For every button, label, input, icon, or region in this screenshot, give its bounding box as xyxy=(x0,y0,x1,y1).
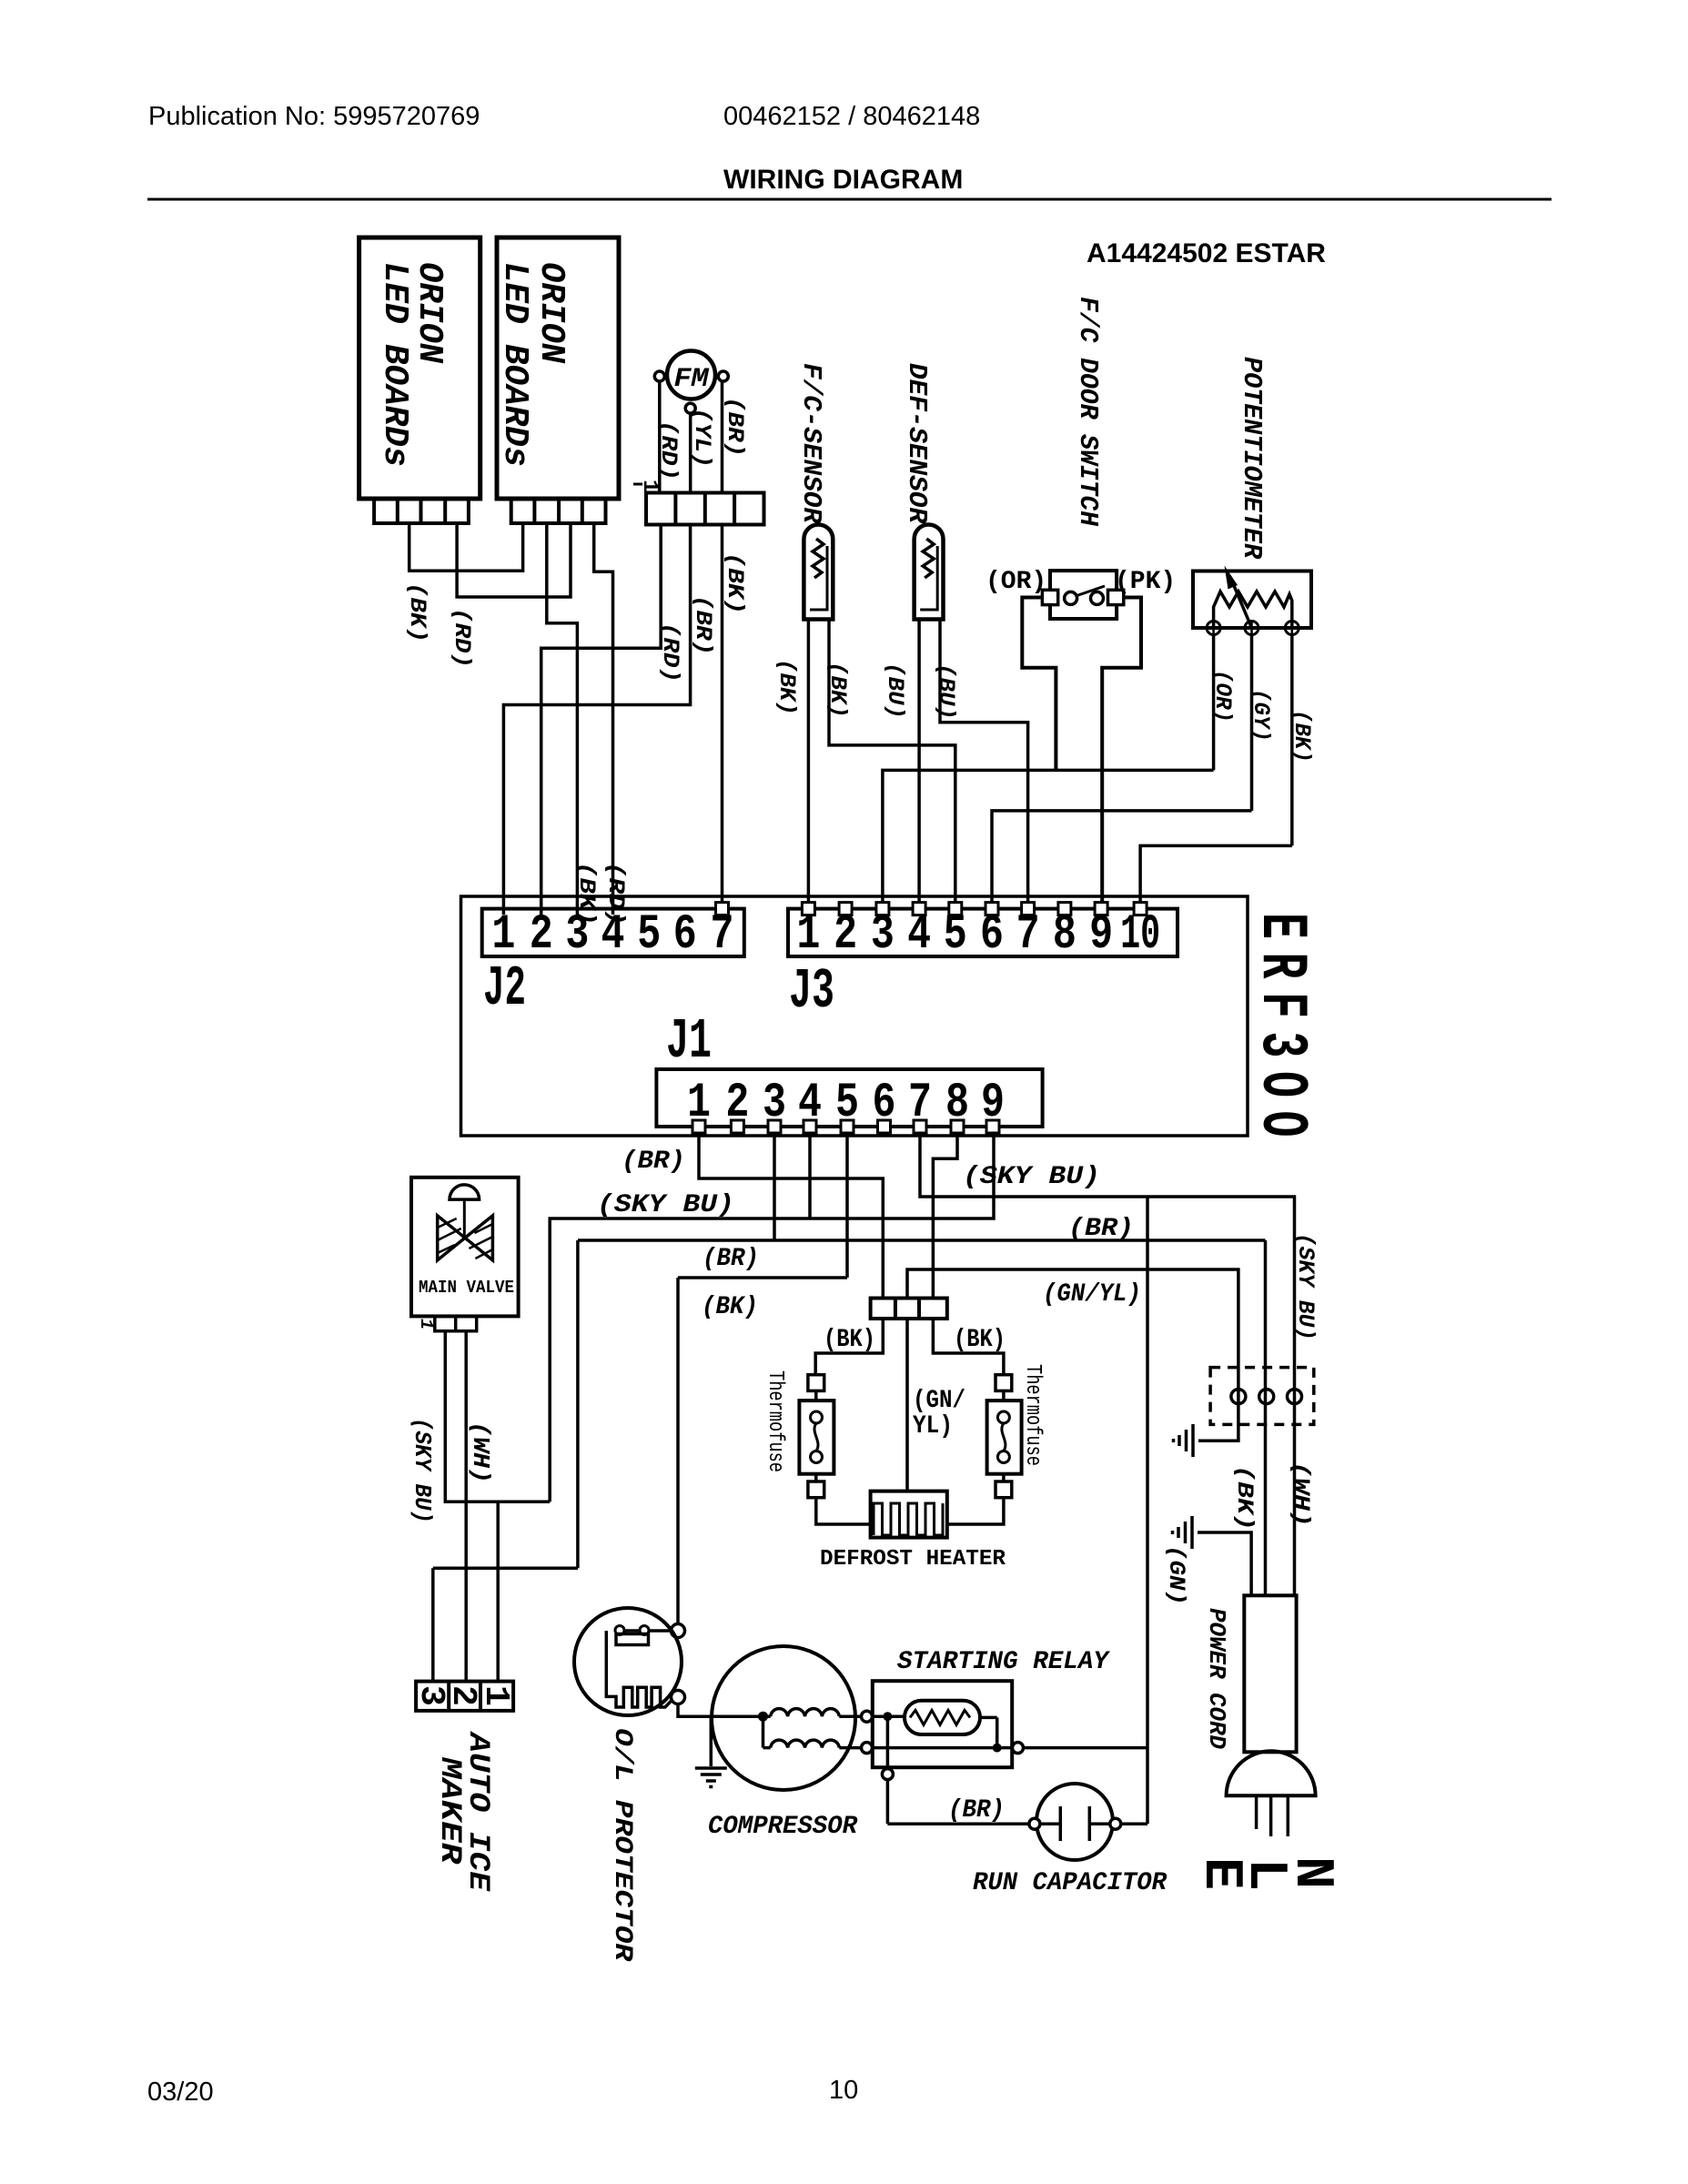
svg-text:(BR): (BR) xyxy=(722,397,748,457)
svg-text:COMPRESSOR: COMPRESSOR xyxy=(708,1813,858,1841)
wire pot (GY) xyxy=(1250,635,1254,811)
relay terminal right xyxy=(1013,1743,1024,1754)
main valve box xyxy=(411,1178,519,1317)
svg-text:(GN): (GN) xyxy=(1163,1545,1189,1605)
door switch contact right xyxy=(1091,591,1104,604)
outlet pin 2 xyxy=(1259,1390,1274,1404)
main valve connector xyxy=(435,1316,477,1330)
svg-text:(SKY BU): (SKY BU) xyxy=(597,1191,734,1219)
svg-text:MAIN VALVE: MAIN VALVE xyxy=(419,1278,514,1298)
svg-text:(BR): (BR) xyxy=(948,1796,1005,1825)
title rule xyxy=(147,198,1552,201)
svg-text:4: 4 xyxy=(601,907,625,963)
compressor circle xyxy=(712,1646,855,1790)
relay wiring xyxy=(873,1714,905,1718)
svg-text:(BK): (BK) xyxy=(824,1326,875,1354)
outlet dashed box xyxy=(1210,1368,1314,1425)
O/L protector bottom terminal xyxy=(672,1691,685,1704)
svg-text:J3: J3 xyxy=(789,959,834,1024)
wire heater cell1 to thermofuse1 xyxy=(815,1319,883,1375)
power cord plug dome xyxy=(1227,1751,1316,1795)
svg-text:1: 1 xyxy=(637,480,662,492)
thermofuse 2 bottom square xyxy=(996,1481,1012,1498)
wire pot (BK) xyxy=(1290,635,1294,846)
svg-text:(RD): (RD) xyxy=(655,420,682,480)
thermofuse 1 top square xyxy=(808,1375,824,1391)
wire OR net to J3 pin3 xyxy=(883,770,1214,908)
FM connector pin1 mark xyxy=(633,483,642,486)
F/C sensor capsule xyxy=(804,524,833,619)
svg-text:6: 6 xyxy=(673,907,697,963)
wire J1 pin3 (BR) net xyxy=(433,1133,1266,1682)
connector J2 box xyxy=(482,909,744,956)
defrost heater element xyxy=(874,1503,943,1535)
svg-text:(BK): (BK) xyxy=(722,552,748,614)
LED board 1 box xyxy=(359,238,480,499)
svg-text:A14424502 ESTAR: A14424502 ESTAR xyxy=(1087,238,1326,268)
run capacitor plates xyxy=(1040,1822,1060,1825)
svg-text:LED BOARDs: LED BOARDs xyxy=(375,262,414,467)
wire GY net to J3 pin6 xyxy=(992,811,1252,909)
LED board 1 connector xyxy=(374,499,469,523)
svg-text:R: R xyxy=(1244,953,1319,980)
FM connector xyxy=(646,493,764,525)
outlet pin 3 xyxy=(1288,1390,1302,1404)
svg-text:(BK): (BK) xyxy=(824,662,851,718)
svg-text:O: O xyxy=(1244,1071,1319,1097)
potentiometer wiper arrow xyxy=(1230,577,1252,628)
door switch body xyxy=(1050,571,1117,619)
wire relay bottom to run capacitor (BR) xyxy=(887,1822,1029,1825)
wire J1 pin1 (BR) to heater connector cell1 xyxy=(699,1133,883,1299)
svg-text:(BR): (BR) xyxy=(690,595,716,655)
svg-text:F/C DOOR SWITCH: F/C DOOR SWITCH xyxy=(1073,297,1103,527)
wire J1 pin7 (SKY BU) to power cord xyxy=(920,1133,1295,1595)
svg-text:(BR): (BR) xyxy=(1068,1215,1134,1243)
ground chassis 1 xyxy=(1191,1424,1195,1457)
svg-text:(BK): (BK) xyxy=(1231,1465,1258,1531)
svg-text:POTENTIOMETER: POTENTIOMETER xyxy=(1237,357,1267,560)
wire thermofuse2 to heater xyxy=(947,1498,1004,1524)
svg-text:(GY): (GY) xyxy=(1248,689,1274,742)
thermofuse 1 body xyxy=(814,1390,818,1400)
pot terminal 2 xyxy=(1245,622,1258,635)
wire BK net to J3 pin10 xyxy=(1140,845,1292,908)
potentiometer resistor xyxy=(1214,591,1292,627)
svg-text:5: 5 xyxy=(637,907,661,963)
wire SKY BU vertical right side xyxy=(1146,1197,1149,1824)
wire FM right terminal to connector cell3 (BR) xyxy=(721,381,724,493)
FM terminal left xyxy=(654,371,664,381)
svg-text:(BU): (BU) xyxy=(882,662,908,719)
starting relay box xyxy=(873,1681,1012,1767)
svg-text:WIRING DIAGRAM: WIRING DIAGRAM xyxy=(723,165,963,195)
svg-text:POWER CORD: POWER CORD xyxy=(1203,1608,1230,1749)
O/L protector top terminal xyxy=(672,1624,685,1638)
wire GN/YL earth net xyxy=(907,1269,1238,1441)
svg-text:(WH): (WH) xyxy=(1288,1461,1314,1527)
svg-text:(OR): (OR) xyxy=(986,568,1046,596)
svg-text:DEF-SENSOR: DEF-SENSOR xyxy=(902,363,932,524)
junction compressor common xyxy=(758,1712,768,1722)
main valve bowtie xyxy=(438,1216,465,1260)
power cord prongs xyxy=(1255,1795,1258,1829)
svg-text:3: 3 xyxy=(565,907,589,963)
ERF300 board box xyxy=(461,896,1248,1136)
F/C sensor element xyxy=(810,546,827,610)
svg-text:J2: J2 xyxy=(483,956,526,1021)
svg-text:Thermofuse: Thermofuse xyxy=(1020,1364,1045,1466)
wire FM bottom terminal to connector cell2 (YL) xyxy=(689,413,692,492)
svg-text:F: F xyxy=(1244,992,1319,1018)
potentiometer box xyxy=(1193,571,1311,629)
svg-text:E: E xyxy=(1189,1857,1251,1890)
defrost heater box xyxy=(871,1491,947,1538)
svg-text:YL): YL) xyxy=(913,1412,953,1441)
svg-text:(BR): (BR) xyxy=(622,1148,685,1176)
svg-text:F/C-SENSOR: F/C-SENSOR xyxy=(796,363,826,524)
svg-text:(GN/YL): (GN/YL) xyxy=(1043,1280,1141,1309)
svg-text:1: 1 xyxy=(476,1685,515,1706)
svg-text:(OR): (OR) xyxy=(1209,670,1236,723)
svg-text:2: 2 xyxy=(530,907,553,963)
connector J1 box xyxy=(656,1069,1042,1127)
ground compressor tap xyxy=(710,1716,713,1766)
LED board 2 box xyxy=(497,238,619,499)
svg-text:(BK): (BK) xyxy=(702,1293,758,1321)
relay terminal bottom xyxy=(882,1769,893,1780)
svg-text:ORION: ORION xyxy=(531,262,571,364)
wire F/C sensor left to J3 pin1 (BK) xyxy=(807,620,811,909)
wire FM cell3 to J2 pin7 (BK) xyxy=(721,525,724,909)
svg-text:DEFROST HEATER: DEFROST HEATER xyxy=(820,1547,1006,1572)
svg-text:00462152 / 80462148: 00462152 / 80462148 xyxy=(723,102,980,131)
thermofuse 2 body xyxy=(1002,1390,1006,1400)
main valve coil dome xyxy=(450,1185,480,1199)
power cord body xyxy=(1244,1595,1296,1752)
svg-text:Thermofuse: Thermofuse xyxy=(763,1370,787,1472)
svg-text:(RD): (RD) xyxy=(657,622,683,682)
relay heater pill xyxy=(905,1701,980,1734)
wire bridge board1-cell4 to board2-cell3 (RD) xyxy=(457,523,571,597)
svg-text:3: 3 xyxy=(1244,1032,1319,1058)
door switch blade xyxy=(1077,586,1106,596)
ground chassis 2 wire xyxy=(1198,1532,1251,1595)
svg-text:Publication No: 5995720769: Publication No: 5995720769 xyxy=(148,102,480,131)
svg-text:(BK): (BK) xyxy=(1289,710,1315,763)
wire board2-cell2 to J2 pin3 xyxy=(547,523,578,915)
wire J1 pin5 (BK) to O/L protector xyxy=(678,1133,847,1624)
door switch contact left xyxy=(1065,591,1077,604)
compressor run winding xyxy=(762,1716,765,1747)
outlet pin 1 xyxy=(1231,1390,1246,1404)
DEF sensor element xyxy=(920,546,937,610)
door switch terminal left xyxy=(1042,590,1057,604)
wire DEF sensor right to J3 pin7 (BU) xyxy=(940,620,1028,909)
svg-text:(SKY BU): (SKY BU) xyxy=(1292,1233,1319,1340)
wire DEF sensor left to J3 pin4 (BU) xyxy=(917,620,921,909)
wire pot (OR) xyxy=(1212,635,1216,771)
run capacitor circle xyxy=(1036,1784,1113,1860)
svg-text:(RD): (RD) xyxy=(449,608,475,668)
wire O/L bottom to compressor xyxy=(678,1704,771,1717)
svg-text:O: O xyxy=(1244,1111,1319,1137)
svg-text:(SKY BU): (SKY BU) xyxy=(963,1163,1100,1191)
ice maker connector xyxy=(416,1682,513,1711)
relay terminal top-left xyxy=(862,1711,873,1722)
svg-text:MAKER: MAKER xyxy=(433,1756,467,1865)
svg-text:03/20: 03/20 xyxy=(147,2078,214,2107)
wire relay right to SKY BU vertical xyxy=(1024,1746,1148,1750)
svg-text:(PK): (PK) xyxy=(1115,568,1176,596)
main valve stem xyxy=(463,1199,466,1238)
svg-text:E: E xyxy=(1244,913,1319,939)
pot terminal 1 xyxy=(1207,622,1220,635)
wire heater cell3 to thermofuse2 xyxy=(933,1319,1004,1375)
wire J1 pin8 (GN/YL) to heater connector cell3 xyxy=(933,1133,957,1299)
ground chassis 2 xyxy=(1190,1516,1194,1549)
pot terminal 3 xyxy=(1285,622,1299,635)
wire F/C sensor right to J3 pin5 (BK) xyxy=(829,620,955,909)
O/L protector internals xyxy=(615,1629,672,1633)
J2 pin7 pad xyxy=(716,903,729,915)
O/L protector circle xyxy=(574,1608,682,1715)
relay resistor zigzag xyxy=(910,1710,970,1724)
svg-text:(BR): (BR) xyxy=(702,1245,759,1273)
compressor start winding xyxy=(771,1709,840,1717)
svg-text:ORION: ORION xyxy=(409,262,449,364)
heater connector xyxy=(871,1299,947,1319)
wire door switch right (PK) to J3 pin9 xyxy=(1102,598,1141,909)
wire FM left terminal to connector cell1 (RD) xyxy=(658,381,662,493)
svg-text:(GN/: (GN/ xyxy=(913,1387,965,1415)
DEF sensor capsule xyxy=(915,524,944,619)
thermofuse 2 top square xyxy=(996,1375,1012,1391)
J3 pin pads xyxy=(802,903,814,915)
svg-text:LED BOARDs: LED BOARDs xyxy=(495,262,534,467)
svg-text:1: 1 xyxy=(415,1319,436,1330)
FM terminal right xyxy=(718,371,728,381)
fan motor FM circle xyxy=(667,351,715,399)
wire bridge board1-cell2 to board2-cell1 (BK) xyxy=(409,523,523,571)
wire run capacitor right xyxy=(1121,1822,1147,1825)
wire door switch left (OR) xyxy=(1022,598,1056,771)
svg-text:(YL): (YL) xyxy=(689,408,715,468)
svg-text:(WH): (WH) xyxy=(467,1421,494,1483)
wire main valve pin2 (WH) to ice maker cell2 xyxy=(464,1331,468,1682)
svg-text:STARTING RELAY: STARTING RELAY xyxy=(897,1648,1110,1676)
svg-text:(BK): (BK) xyxy=(773,659,800,715)
wire main valve to SKY BU bus and ice maker cell1 xyxy=(445,1331,550,1682)
relay terminal bottom-left xyxy=(862,1743,873,1754)
wire thermofuse1 to heater xyxy=(816,1498,871,1524)
thermofuse 1 bottom square xyxy=(808,1481,824,1498)
wire board2-cell4 to J2 pin4 xyxy=(594,523,613,915)
svg-text:FM: FM xyxy=(674,364,710,395)
wire SKY BU bus to J1 pin9 xyxy=(550,1133,994,1501)
svg-text:(BU): (BU) xyxy=(933,663,959,720)
svg-text:(SKY BU): (SKY BU) xyxy=(409,1418,436,1523)
svg-text:1: 1 xyxy=(491,907,515,963)
svg-text:(BK): (BK) xyxy=(954,1326,1006,1354)
door switch terminal right xyxy=(1108,590,1124,604)
svg-text:O/L PROTECTOR: O/L PROTECTOR xyxy=(608,1728,636,1962)
svg-text:(BK): (BK) xyxy=(404,582,430,642)
FM terminal bottom xyxy=(685,403,695,413)
J1 pin pads xyxy=(692,1120,705,1133)
svg-text:J1: J1 xyxy=(666,1009,712,1074)
connector J3 box xyxy=(788,909,1178,956)
wire FM cell1 to J2 pin2 (RD) xyxy=(541,525,662,915)
svg-text:RUN CAPACITOR: RUN CAPACITOR xyxy=(973,1869,1167,1897)
svg-text:10: 10 xyxy=(829,2076,858,2105)
wire heater cell2 to heater center (GN/YL) xyxy=(905,1319,909,1491)
wire J1 pin4 (SKY BU) xyxy=(808,1133,812,1218)
run capacitor terminal right xyxy=(1110,1818,1121,1829)
run capacitor terminal left xyxy=(1029,1818,1040,1829)
wire FM cell2 to J2 pin1 (YL) xyxy=(503,525,690,915)
LED board 2 connector xyxy=(511,499,606,523)
